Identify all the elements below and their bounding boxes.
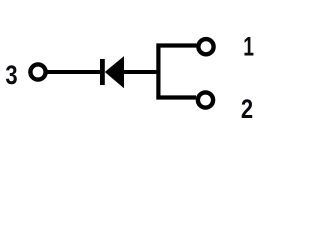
diode (anode triangle) — [105, 56, 124, 88]
terminal 1 (open circle) — [198, 39, 213, 54]
svg-text:1: 1 — [243, 32, 254, 62]
terminal 2 (open circle) — [198, 92, 213, 107]
wire main horizontal from terminal 3 to diode — [38, 70, 102, 74]
wire from diode anode to branch junction — [124, 70, 161, 74]
svg-text:3: 3 — [5, 61, 17, 90]
svg-text:2: 2 — [241, 95, 253, 124]
wire branch: vertical riser with top and bottom arms — [158, 46, 196, 98]
diode (cathode bar) — [100, 59, 105, 85]
terminal 3 (open circle) — [30, 64, 45, 79]
